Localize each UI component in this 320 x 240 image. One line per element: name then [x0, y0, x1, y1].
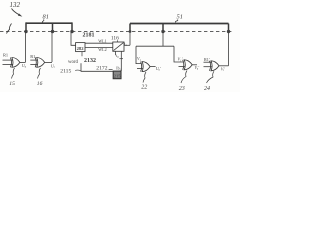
wire: bus 81 right drop — [71, 22, 73, 31]
svg-text:WL2: WL2 — [98, 47, 106, 52]
svg-text:Vᵢ′: Vᵢ′ — [221, 66, 225, 71]
gate 15 (XOR) — [10, 58, 20, 68]
wire: bus 51 right drop — [228, 24, 230, 32]
leader to label 24 — [207, 71, 215, 83]
svg-text:Vₐ′: Vₐ′ — [195, 65, 200, 70]
junction dot A — [24, 30, 27, 33]
wire: gate 16 inputs — [30, 59, 37, 61]
svg-text:R1′: R1′ — [204, 57, 210, 62]
svg-text:R1: R1 — [3, 53, 8, 58]
svg-text:24: 24 — [204, 85, 210, 92]
svg-text:215: 215 — [114, 73, 121, 78]
wire: bus 51 left drop to mux output — [129, 24, 131, 32]
junction dot C — [70, 30, 73, 33]
leader from 51 to bus — [175, 20, 177, 23]
svg-text:Uᵢ: Uᵢ — [51, 63, 55, 68]
svg-text:V₁: V₁ — [137, 56, 142, 61]
svg-text:16: 16 — [37, 81, 43, 87]
wire: gate 16 output — [45, 61, 52, 63]
gate 23 (XOR) — [183, 60, 193, 70]
gate 24 (XOR) — [210, 61, 220, 71]
wire: net 2115 to latch 215 — [81, 63, 113, 71]
gate 16 (XOR) — [35, 58, 45, 68]
leader to label 23 — [181, 71, 187, 84]
word decoder block 282 — [76, 43, 85, 52]
svg-text:15: 15 — [9, 81, 15, 87]
wire: gate 23 lower input — [179, 66, 185, 68]
svg-text:2115: 2115 — [60, 68, 71, 74]
wire: bus 81 middle drop — [52, 23, 54, 31]
svg-text:R1.: R1. — [30, 54, 36, 59]
svg-text:116: 116 — [111, 35, 119, 41]
wire: gate 22 output — [150, 66, 156, 68]
svg-text:2181: 2181 — [83, 32, 95, 38]
wire: from dot D down to T junction — [162, 32, 164, 47]
svg-text:2132: 2132 — [84, 58, 96, 64]
latch 215 — [113, 71, 121, 79]
wire: word line WL2 — [85, 47, 113, 49]
wire: from dot B down to gate 16 output — [51, 32, 53, 63]
leader to label 22 — [143, 72, 146, 83]
word line bus 81 (left thick bus) — [26, 22, 72, 24]
wire: right branch down to gate 23 input — [174, 46, 184, 62]
wire: from dot C down to word decoder 282 — [71, 32, 76, 46]
wire: gate 24 output to dot E — [219, 65, 229, 67]
wire: T horizontal — [136, 45, 174, 47]
leader from 81 to bus — [42, 20, 44, 23]
svg-text:51: 51 — [177, 13, 183, 20]
wire: gate 23 output — [192, 64, 197, 66]
wire: from dot A down to gate 15 output — [25, 32, 27, 63]
svg-text:WL1: WL1 — [98, 39, 106, 44]
leader to label 15 — [12, 68, 15, 79]
junction dot E — [227, 30, 230, 33]
wire: word line WL1 — [85, 42, 113, 44]
wire: gate 15 inputs — [3, 59, 13, 61]
wire: gate 24 inputs — [204, 61, 212, 63]
svg-text:word: word — [68, 60, 78, 65]
svg-text:2172: 2172 — [96, 66, 107, 72]
word line bus 51 (right thick bus) — [130, 23, 229, 25]
wire: mux output t1 — [124, 44, 130, 46]
wire: mux bottom stub t0 — [114, 51, 116, 55]
svg-text:Ib₁: Ib₁ — [116, 67, 121, 71]
svg-text:132: 132 — [10, 1, 21, 9]
svg-text:Uₐ: Uₐ — [22, 63, 27, 68]
wire: bus 81 left drop — [25, 22, 27, 31]
junction dot B — [51, 30, 54, 33]
node: bit line (dashed center line) — [0, 31, 233, 33]
gate 22 (XOR) — [141, 62, 151, 72]
svg-text:V₁′: V₁′ — [178, 57, 183, 62]
node 2: squiggle leader on bit line — [7, 24, 12, 34]
svg-text:t₀: t₀ — [116, 53, 119, 58]
svg-text:Uₐ′: Uₐ′ — [156, 66, 161, 71]
wire: gate 15 output — [20, 61, 26, 63]
leader arrow from 132 — [12, 9, 19, 15]
wire: gate 22 lower input — [137, 68, 143, 70]
wire: left branch down to gate 22 input — [136, 46, 142, 63]
svg-text:23: 23 — [179, 86, 185, 92]
mux U116 — [113, 42, 124, 51]
svg-text:81: 81 — [43, 13, 49, 20]
svg-text:282: 282 — [77, 46, 85, 51]
wire: mux U116 to latch 215 — [120, 51, 122, 71]
junction dot D — [161, 30, 164, 33]
svg-text:22: 22 — [141, 84, 147, 90]
wire: bus 51 middle drop — [162, 24, 164, 32]
leader to label 16 — [38, 68, 41, 79]
